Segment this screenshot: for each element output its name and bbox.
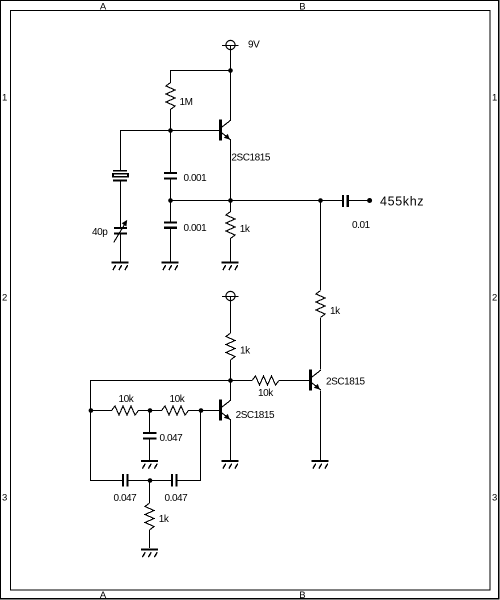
svg-text:2SC1815: 2SC1815 <box>326 376 365 387</box>
svg-text:B: B <box>299 590 305 600</box>
svg-text:2SC1815: 2SC1815 <box>231 152 270 163</box>
svg-text:455khz: 455khz <box>380 195 424 209</box>
svg-text:1: 1 <box>492 93 497 104</box>
svg-text:0.001: 0.001 <box>184 223 208 234</box>
svg-text:10k: 10k <box>119 394 135 405</box>
svg-text:3: 3 <box>492 493 497 504</box>
svg-text:1: 1 <box>2 93 7 104</box>
svg-text:A: A <box>100 590 107 600</box>
svg-text:A: A <box>100 1 107 12</box>
svg-text:1k: 1k <box>240 224 251 235</box>
svg-text:1M: 1M <box>180 97 193 108</box>
svg-text:10k: 10k <box>170 394 186 405</box>
svg-text:9V: 9V <box>248 40 260 51</box>
svg-text:2SC1815: 2SC1815 <box>236 410 275 421</box>
svg-text:1k: 1k <box>159 514 170 525</box>
svg-text:B: B <box>299 1 305 12</box>
svg-text:2: 2 <box>2 293 7 304</box>
svg-text:0.047: 0.047 <box>160 433 184 444</box>
svg-text:2: 2 <box>492 293 497 304</box>
svg-text:10k: 10k <box>258 388 274 399</box>
svg-text:1k: 1k <box>240 346 251 357</box>
svg-text:0.047: 0.047 <box>165 493 189 504</box>
svg-text:0.047: 0.047 <box>114 493 138 504</box>
svg-text:0.001: 0.001 <box>184 173 208 184</box>
svg-text:1k: 1k <box>330 306 341 317</box>
svg-text:40p: 40p <box>92 227 108 238</box>
svg-text:0.01: 0.01 <box>352 220 371 231</box>
svg-text:3: 3 <box>2 493 7 504</box>
